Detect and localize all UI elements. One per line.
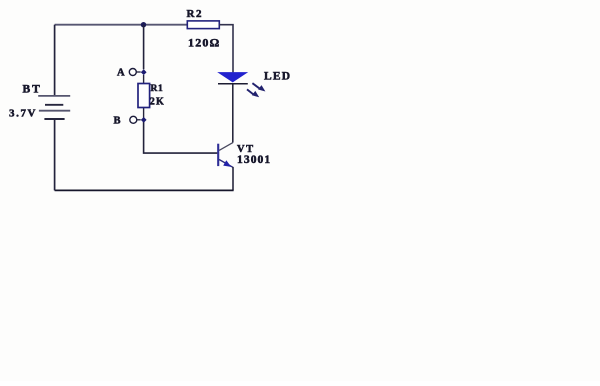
svg-text:LED: LED [264,70,291,82]
svg-text:A: A [117,67,125,78]
svg-text:2K: 2K [150,97,165,108]
svg-text:13001: 13001 [237,154,271,166]
svg-text:120Ω: 120Ω [188,36,220,50]
svg-text:BT: BT [23,84,42,96]
svg-text:3.7V: 3.7V [9,108,37,120]
svg-text:B: B [114,116,121,127]
svg-text:R1: R1 [151,84,164,94]
svg-text:R2: R2 [187,8,204,20]
